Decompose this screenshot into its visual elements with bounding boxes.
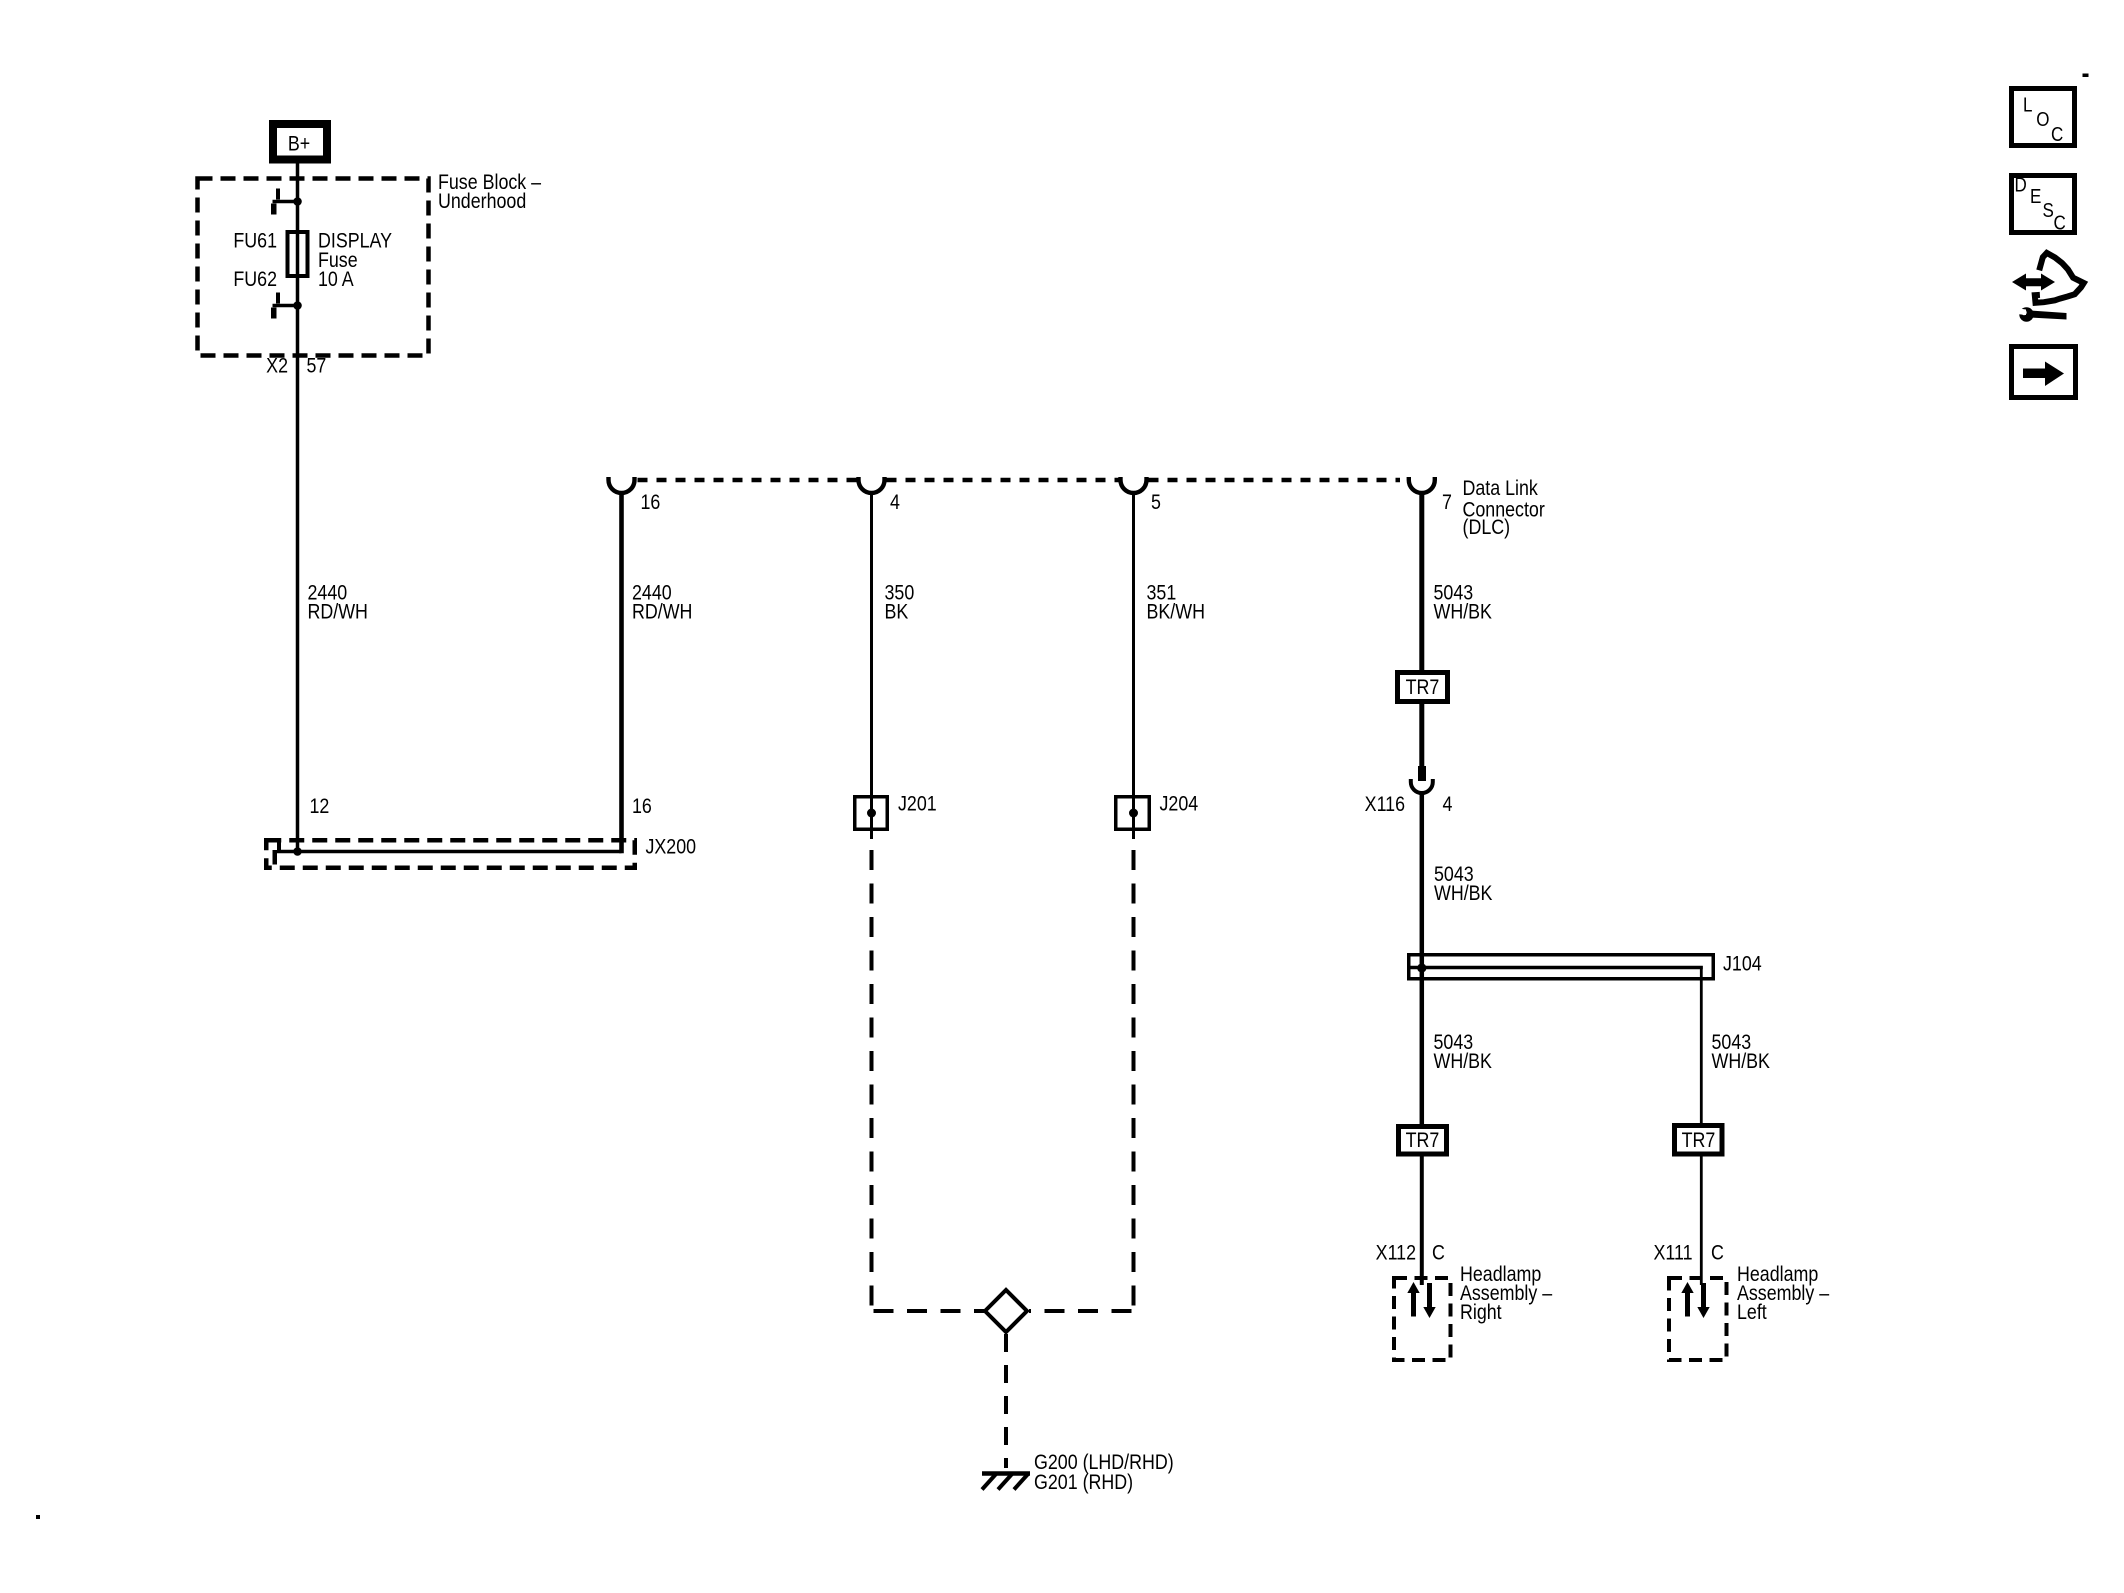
svg-text:WH/BK: WH/BK [1712,1050,1770,1074]
wire label 5043 WH/BK mid [1434,863,1492,906]
battery feed B+ [273,124,327,160]
splice J201 [855,792,937,830]
connector X111 pin C labels [1654,1241,1724,1265]
wire JX200 horizontal [277,850,622,854]
svg-text:J204: J204 [1160,792,1199,816]
stray mark top right [2083,74,2089,78]
svg-text:C: C [1432,1241,1445,1265]
DESC button [2012,173,2075,234]
headlamp assembly right dashed box [1394,1278,1451,1360]
svg-text:J201: J201 [898,792,937,816]
svg-text:FU61: FU61 [233,229,277,253]
junction dot JX200 [293,847,302,856]
svg-text:BK: BK [885,600,909,624]
JX200 dashed box [266,840,635,868]
svg-text:Data Link: Data Link [1463,477,1539,501]
fuse block underhood dashed box [198,179,429,356]
headlamp assembly left dashed box [1669,1278,1727,1360]
dashed wire to ground [1004,1334,1008,1468]
headlamp left arrows [1681,1282,1709,1318]
terminal clip lower [271,293,302,319]
svg-text:16: 16 [641,491,661,515]
svg-text:TR7: TR7 [1406,676,1440,700]
svg-text:E: E [2030,185,2041,208]
in-line connector TR7 left [1399,1127,1447,1155]
DLC connector cup pin 5 [1121,477,1147,493]
svg-text:X116: X116 [1365,793,1405,817]
svg-text:C: C [1711,1241,1724,1265]
DLC connector cup pin 16 [609,477,635,493]
svg-text:4: 4 [890,491,900,515]
svg-text:WH/BK: WH/BK [1434,1050,1492,1074]
harness routing icon: outline arrow [2035,253,2084,303]
svg-text:FU62: FU62 [233,268,277,292]
svg-text:TR7: TR7 [1682,1129,1716,1153]
connector X2 pin 57 labels [266,354,326,378]
svg-text:RD/WH: RD/WH [632,600,692,624]
wire colE pin7 down [1419,493,1424,671]
svg-text:57: 57 [307,354,327,378]
diamond splice [985,1290,1027,1332]
harness routing icon: double arrow [2012,274,2055,291]
stray mark bottom left [36,1515,40,1519]
svg-text:X111: X111 [1654,1241,1693,1265]
DLC connector cup pin 7 [1409,477,1435,493]
wire colD pin5 down [1132,493,1135,838]
fuse block label [438,171,541,214]
fuse FU61/FU62 DISPLAY 10A [233,229,392,291]
svg-text:16: 16 [632,795,652,819]
svg-text:L: L [2023,93,2032,116]
LOC button [2012,89,2075,146]
svg-text:Underhood: Underhood [438,190,526,214]
wire label 350 BK [885,581,915,624]
svg-text:WH/BK: WH/BK [1434,882,1492,906]
wire colA B+ to JX200 [296,163,300,852]
svg-text:S: S [2043,199,2054,222]
svg-text:4: 4 [1443,793,1453,817]
wire X116 to J104 and down to TR7 left [1420,792,1425,1125]
svg-text:X2: X2 [266,354,288,378]
DLC dotted bus line [638,478,1401,483]
wire label 5043 WH/BK colE [1434,581,1492,624]
svg-text:RD/WH: RD/WH [308,600,368,624]
wire label 5043 WH/BK left branch [1434,1031,1492,1074]
wire label 351 BK/WH [1147,581,1205,624]
splice J204 [1116,792,1199,830]
svg-text:B+: B+ [288,132,310,156]
svg-text:Left: Left [1737,1301,1767,1325]
svg-text:G201 (RHD): G201 (RHD) [1034,1471,1133,1495]
connector X112 pin C labels [1376,1241,1445,1265]
headlamp assembly right label [1460,1263,1552,1325]
Data Link Connector (DLC) label [1463,477,1546,540]
svg-text:J104: J104 [1723,952,1762,976]
harness routing icon: wrench [2012,307,2067,321]
dashed wire colD to diamond [1132,830,1135,839]
svg-text:12: 12 [310,795,330,819]
svg-text:C: C [2051,123,2063,146]
next-page arrow button [2012,347,2076,398]
terminal clip upper [271,189,302,215]
wire TR7 left to headlamp right [1420,1156,1424,1285]
JX200 clip [277,839,281,853]
junction block J104 [1409,952,1762,980]
headlamp right arrows [1407,1282,1435,1318]
wire TR7 right to headlamp left [1700,1156,1703,1285]
svg-text:5: 5 [1151,491,1161,515]
svg-text:O: O [2036,108,2049,131]
svg-text:X112: X112 [1376,1241,1416,1265]
ground G200/G201 [982,1451,1174,1495]
wire label 2440 RD/WH colA [308,581,368,624]
wire label 2440 RD/WH colB [632,581,692,624]
svg-text:(DLC): (DLC) [1463,516,1511,540]
svg-text:C: C [2054,211,2066,234]
headlamp assembly left label [1737,1263,1829,1325]
svg-text:WH/BK: WH/BK [1434,600,1492,624]
wire colF J104 right branch down [1700,966,1703,1124]
wire colC pin4 down [870,493,873,838]
svg-text:TR7: TR7 [1406,1129,1440,1153]
svg-text:Right: Right [1460,1301,1502,1325]
connector X116 pin and cup [1365,766,1453,816]
in-line connector TR7 top [1398,673,1448,702]
svg-text:D: D [2015,173,2027,196]
wire colB up to DLC pin 16 [619,493,624,853]
DLC connector cup pin 4 [859,477,885,493]
wire TR7 to X116 pin [1419,704,1424,767]
in-line connector TR7 right [1675,1126,1723,1155]
svg-text:JX200: JX200 [646,835,697,859]
svg-text:10 A: 10 A [318,268,354,292]
dashed wire colC to diamond [870,830,873,839]
wire label 5043 WH/BK right branch [1712,1031,1770,1074]
svg-text:7: 7 [1442,491,1452,515]
svg-text:BK/WH: BK/WH [1147,600,1205,624]
